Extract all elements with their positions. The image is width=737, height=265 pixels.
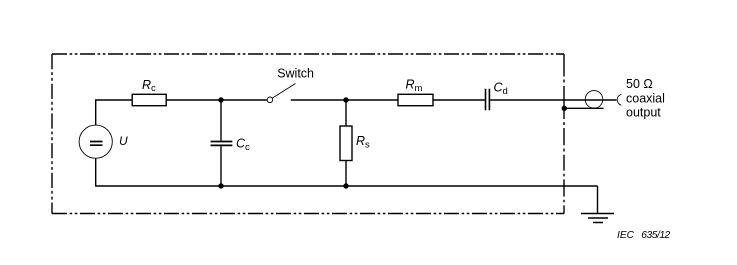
svg-text:Cd: Cd (494, 80, 508, 96)
coaxial connector J1 (585, 91, 621, 109)
capacitor C2 (Cd) (486, 89, 490, 111)
shield enclosure boundary (dash-dot box) (52, 54, 564, 214)
svg-text:U: U (119, 134, 128, 148)
switch S1 (267, 84, 295, 103)
svg-text:Cc: Cc (236, 137, 250, 153)
resistor R3 (Rm) (398, 94, 433, 105)
svg-text:Switch: Switch (277, 67, 314, 81)
node junction Rs bottom (343, 183, 348, 188)
svg-text:Rs: Rs (356, 134, 370, 150)
ground (581, 186, 614, 223)
node junction Rc/Cc (218, 97, 223, 102)
wire Rc to switch (166, 99, 267, 101)
wire Cd to coax connector (490, 99, 585, 101)
wire bottom return (96, 158, 598, 186)
label 50 ohm coaxial output (626, 77, 665, 120)
wire shield link to connector (564, 107, 603, 109)
svg-text:output: output (626, 105, 661, 119)
wire source top to Rc (96, 100, 133, 125)
node junction switch/Rs (343, 97, 348, 102)
svg-text:50 Ω: 50 Ω (626, 77, 653, 91)
voltage source U (79, 125, 112, 158)
wire Rm to Cd (433, 99, 485, 101)
svg-text:Rc: Rc (142, 78, 156, 94)
svg-text:IEC: IEC (617, 230, 635, 241)
capacitor C1 (Cc) (211, 100, 233, 186)
shield connection node on enclosure (562, 106, 567, 111)
svg-text:coaxial: coaxial (626, 92, 665, 106)
resistor R1 (Rc) (132, 94, 166, 105)
wire switch to Rm (291, 99, 398, 101)
node junction Cc bottom (218, 183, 223, 188)
resistor R2 (Rs) (340, 100, 352, 186)
svg-text:635/12: 635/12 (641, 230, 670, 241)
svg-text:Rm: Rm (406, 78, 423, 94)
